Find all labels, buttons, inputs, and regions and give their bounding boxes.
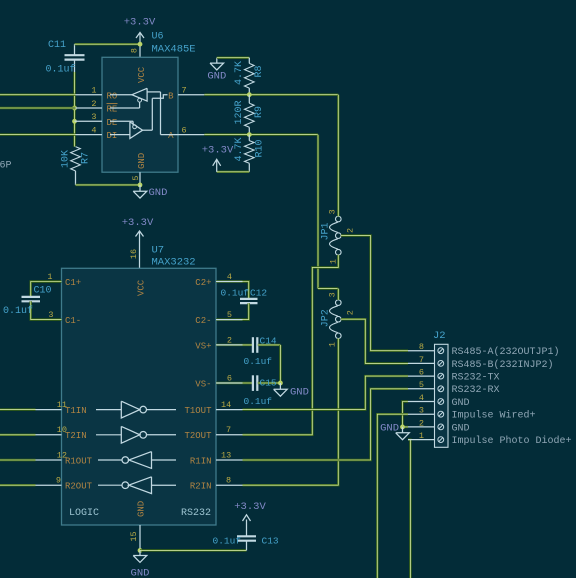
pin numbers JP1 [328, 209, 356, 264]
svg-text:3: 3 [328, 209, 338, 214]
wire JP2 pin1 to U7 R2IN [243, 338, 339, 485]
pin 3 DE stub [75, 120, 103, 122]
svg-text:RS232: RS232 [181, 508, 211, 519]
pin numbers JP2 [328, 292, 356, 347]
wire JP1 pin2 to J2 pin8 [341, 236, 408, 351]
wire T1IN from left [0, 408, 36, 410]
svg-text:U7: U7 [152, 245, 165, 257]
svg-text:3: 3 [328, 292, 338, 297]
svg-text:R9: R9 [254, 106, 265, 118]
svg-text:RS485-A(232OUTJP1): RS485-A(232OUTJP1) [452, 346, 560, 358]
svg-text:R7: R7 [81, 152, 92, 164]
J2 pin 4 symbol [438, 399, 444, 405]
junction at pin8/C11 [138, 42, 143, 47]
svg-text:1: 1 [47, 272, 52, 282]
svg-text:3: 3 [48, 310, 53, 320]
svg-text:DI: DI [107, 131, 118, 141]
svg-text:C1+: C1+ [65, 278, 81, 288]
wire R10 bottom to +3.3V [217, 163, 250, 172]
wire R9 top [248, 95, 250, 104]
svg-text:R1IN: R1IN [190, 456, 212, 466]
svg-text:RS485-B(232INJP2): RS485-B(232INJP2) [452, 359, 554, 371]
U7 R2 receiver [98, 477, 176, 494]
wire B net vertical to JP1 pin3 [337, 95, 339, 217]
wire J2 pin5 to U7 R1IN [243, 389, 409, 460]
wire R10 top [248, 135, 250, 141]
power +3.3V (C13) [234, 501, 266, 536]
svg-text:MAX485E: MAX485E [152, 44, 196, 56]
svg-text:14: 14 [221, 400, 231, 410]
J2 pin 8 stub [408, 350, 435, 352]
svg-text:5: 5 [419, 380, 424, 390]
svg-text:6P: 6P [0, 161, 12, 172]
svg-text:VCC: VCC [137, 66, 147, 83]
svg-text:C11: C11 [48, 40, 66, 51]
wire J2 pin6 to U7 T1OUT [243, 376, 409, 410]
pin 6 A stub [178, 134, 204, 136]
U7 T2 driver [96, 426, 176, 443]
pin names U6 [107, 66, 175, 169]
connector J2 body [435, 344, 449, 447]
J2 pin 4 stub [408, 401, 435, 403]
svg-text:0.1uf: 0.1uf [3, 305, 33, 317]
wire RO input from left [0, 93, 76, 95]
svg-text:8: 8 [130, 48, 140, 53]
wire J2 pin4 to pin2 GND [403, 402, 409, 427]
svg-text:2: 2 [91, 99, 96, 109]
svg-text:0.1uf: 0.1uf [221, 288, 250, 299]
svg-text:2: 2 [227, 335, 232, 345]
junction A/R9/R10 [247, 132, 252, 137]
pin 7 B stub [178, 94, 204, 96]
svg-text:JP1: JP1 [321, 222, 332, 240]
svg-text:C10: C10 [34, 286, 52, 297]
svg-text:7: 7 [226, 425, 231, 435]
wire C14 to C15/GND [279, 345, 281, 383]
U7 right pin stubs [216, 282, 243, 486]
svg-text:13: 13 [221, 450, 231, 460]
svg-text:GND: GND [452, 398, 470, 409]
power +3.3V (U7 pin 16) [122, 217, 154, 243]
wire R2OUT from left [0, 484, 36, 486]
resistor R7 [71, 147, 81, 185]
resistor R10 [245, 141, 255, 164]
wire GND to R8 [217, 58, 250, 64]
svg-text:0.1uf: 0.1uf [244, 396, 273, 407]
svg-text:B: B [168, 91, 174, 101]
U6 RE bubble [110, 98, 142, 108]
capacitor C12 [216, 282, 258, 320]
J2 pin 3 stub [408, 413, 435, 415]
ground (J2 pin2) [380, 423, 409, 440]
pin numbers U7 right [221, 400, 231, 486]
wire A net to JP2 pin3 [318, 135, 338, 300]
svg-text:GND: GND [137, 153, 147, 169]
pin numbers U6 right [182, 86, 187, 136]
wire R9 bottom [248, 127, 250, 134]
wire R1OUT from left [0, 459, 36, 461]
svg-text:9: 9 [56, 476, 61, 486]
svg-text:C2-: C2- [195, 316, 211, 326]
wire R7 to GND [76, 184, 141, 186]
pin names U7 [65, 278, 212, 517]
svg-text:C12: C12 [250, 288, 267, 299]
svg-text:C1-: C1- [65, 316, 81, 326]
svg-text:T2OUT: T2OUT [184, 431, 212, 441]
wire DI input from left [0, 133, 76, 135]
power +3.3V (U6 pin 8) [124, 17, 156, 45]
junction at U6 GND [138, 183, 143, 188]
ground (above R8) [207, 58, 226, 83]
svg-text:16: 16 [129, 249, 139, 259]
J2 pin 5 symbol [438, 386, 444, 392]
wire B net (U6 pin7 to JP1) [204, 93, 338, 95]
wire T2IN from left [0, 434, 36, 436]
wire JP2 pin2 to J2 pin7 [341, 319, 408, 363]
wire J2 pin3 Impulse Wired+ [377, 414, 408, 578]
svg-text:T1OUT: T1OUT [184, 406, 212, 416]
pin 16 stub (U7) [139, 243, 141, 268]
wire JP1 pin1 to U7 T2OUT [243, 255, 339, 435]
svg-text:Impulse Photo Diode+: Impulse Photo Diode+ [452, 435, 572, 447]
svg-text:T2IN: T2IN [65, 431, 87, 441]
resistor R8 [245, 63, 255, 88]
svg-text:C13: C13 [262, 536, 279, 547]
svg-text:4: 4 [227, 272, 232, 282]
svg-text:R1OUT: R1OUT [65, 456, 93, 466]
wire pin8 stub [139, 44, 141, 57]
svg-text:2: 2 [419, 418, 424, 428]
svg-text:1: 1 [419, 431, 424, 441]
svg-text:VS+: VS+ [195, 341, 211, 351]
svg-text:7: 7 [182, 86, 187, 96]
svg-text:MAX3232: MAX3232 [152, 257, 196, 269]
pin numbers U7 left [56, 400, 67, 486]
J2 pin 2 symbol [438, 424, 444, 430]
svg-text:GND: GND [137, 501, 147, 517]
svg-text:5: 5 [131, 175, 141, 180]
J2 pin 6 symbol [438, 373, 444, 379]
svg-text:R10: R10 [255, 139, 266, 157]
J2 pin 1 symbol [438, 437, 444, 443]
svg-text:1: 1 [329, 259, 339, 264]
U6 receiver triangle [110, 88, 147, 101]
svg-text:VCC: VCC [137, 279, 147, 296]
svg-text:+3.3V: +3.3V [234, 501, 266, 513]
capacitor C15 [216, 375, 280, 391]
svg-text:RO: RO [107, 91, 118, 101]
J2 pin 7 stub [408, 362, 435, 364]
svg-text:8: 8 [226, 476, 231, 486]
J2 pin 7 symbol [438, 361, 444, 367]
svg-text:GND: GND [207, 71, 226, 83]
capacitor C11 [65, 44, 85, 72]
junction B/R8/R9 [247, 92, 252, 97]
svg-text:J2: J2 [433, 330, 446, 342]
J2 pin 8 symbol [438, 348, 444, 354]
svg-text:RS232-RX: RS232-RX [452, 385, 500, 396]
svg-text:4.7K: 4.7K [234, 61, 245, 85]
U7 R1 receiver [98, 452, 176, 469]
svg-text:120R: 120R [234, 100, 245, 124]
junction U7 GND [138, 548, 143, 553]
svg-text:6: 6 [419, 368, 424, 378]
U6 DE bubble [110, 121, 137, 128]
svg-text:2: 2 [346, 310, 356, 315]
svg-text:+3.3V: +3.3V [202, 145, 234, 157]
svg-text:7: 7 [419, 355, 424, 365]
U7 left pin stubs [36, 410, 62, 486]
junction RE rail [72, 106, 77, 111]
svg-text:3: 3 [419, 406, 424, 416]
capacitor C14 [216, 337, 280, 353]
pin numbers U6 left [91, 86, 96, 136]
svg-text:DE: DE [107, 118, 118, 128]
svg-text:C2+: C2+ [195, 278, 211, 288]
svg-text:C14: C14 [260, 336, 277, 347]
capacitor C10 [22, 282, 62, 320]
junction DE rail [72, 119, 77, 124]
ground (U7 pin15) [131, 550, 150, 578]
J2 pin 1 stub [408, 439, 435, 441]
pin 15 GND stub (U7) [139, 525, 141, 550]
svg-text:10K: 10K [61, 150, 72, 168]
wire RE input from left [0, 107, 76, 109]
svg-text:3: 3 [91, 112, 96, 122]
resistor R9 [245, 103, 255, 127]
svg-text:RS232-TX: RS232-TX [452, 373, 500, 384]
svg-text:4: 4 [91, 126, 96, 136]
J2 pin 2 stub [408, 426, 435, 428]
pin 1 RO stub [76, 94, 103, 96]
U7 T1 driver [96, 401, 176, 418]
svg-text:GND: GND [149, 187, 168, 199]
svg-text:0.1uf: 0.1uf [244, 356, 273, 367]
svg-text:LOGIC: LOGIC [69, 508, 99, 519]
U6 internal wiring [143, 92, 178, 135]
svg-text:A: A [168, 131, 174, 141]
U6 driver triangle [110, 122, 143, 139]
svg-text:4: 4 [419, 393, 424, 403]
svg-text:0.1uf: 0.1uf [213, 536, 242, 547]
svg-text:GND: GND [290, 387, 309, 399]
junction VS-/GND [278, 381, 283, 386]
svg-text:RE: RE [107, 105, 118, 115]
wire R8 to B line [248, 88, 250, 95]
J2 pin 3 symbol [438, 411, 444, 417]
svg-text:6: 6 [227, 374, 232, 384]
svg-text:+3.3V: +3.3V [124, 17, 156, 29]
svg-text:0.1uf: 0.1uf [46, 64, 76, 76]
J2 pin 6 stub [408, 375, 435, 377]
svg-text:GND: GND [452, 423, 470, 434]
wire RE/DE rail (C11 to R7) [73, 72, 75, 147]
jumper JP2 [330, 300, 342, 339]
op-amp U6 body [102, 57, 178, 172]
junction J2 GND [400, 425, 405, 430]
op-amp U7 body [62, 268, 217, 525]
ground (C15) [274, 383, 309, 399]
wire U7 GND to C13 [140, 549, 247, 551]
J2 pin 5 stub [408, 388, 435, 390]
svg-text:2: 2 [346, 228, 356, 233]
svg-text:U6: U6 [152, 32, 164, 43]
svg-text:T1IN: T1IN [65, 406, 87, 416]
jumper JP1 [330, 216, 342, 255]
svg-text:5: 5 [227, 310, 232, 320]
svg-text:15: 15 [129, 531, 139, 541]
svg-text:VS-: VS- [195, 379, 211, 389]
power +3.3V (R10) [202, 145, 234, 172]
svg-text:6: 6 [182, 126, 187, 136]
svg-text:R2OUT: R2OUT [65, 482, 93, 492]
svg-text:GND: GND [380, 423, 399, 435]
svg-text:JP2: JP2 [321, 309, 332, 327]
pin 5 GND stub (U6) [139, 172, 141, 185]
svg-text:1: 1 [328, 342, 338, 347]
capacitor C13 [237, 536, 256, 550]
svg-text:R8: R8 [254, 65, 265, 77]
svg-text:C15: C15 [260, 378, 277, 389]
ground (U6 pin5) [133, 185, 167, 199]
svg-text:1: 1 [91, 86, 96, 96]
svg-text:R2IN: R2IN [190, 482, 212, 492]
svg-text:4.7K: 4.7K [234, 137, 245, 161]
svg-text:Impulse Wired+: Impulse Wired+ [452, 410, 536, 422]
pin 2 RE stub [76, 107, 103, 109]
pin 4 DI stub [76, 134, 103, 136]
wire A net (U6 pin6 to JP2) [204, 133, 318, 135]
wire C11 to +3.3V rail [75, 43, 141, 45]
svg-text:+3.3V: +3.3V [122, 217, 154, 229]
svg-text:GND: GND [131, 568, 150, 578]
svg-text:8: 8 [419, 342, 424, 352]
wire J2 pin1 Impulse Photo Diode+ [408, 440, 410, 578]
